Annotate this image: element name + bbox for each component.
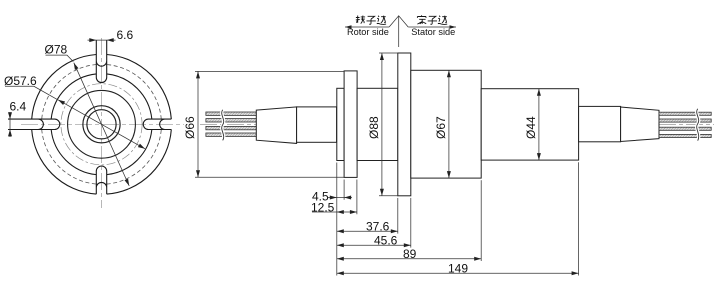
svg-text:Ø78: Ø78	[45, 43, 68, 57]
spacer cylinder	[357, 88, 398, 160]
svg-text:Ø67: Ø67	[434, 116, 448, 139]
inner circle	[68, 90, 136, 158]
svg-text:149: 149	[448, 262, 468, 276]
slot E	[143, 119, 171, 129]
svg-text:37.6: 37.6	[366, 220, 390, 234]
label 转子边	[356, 16, 365, 24]
bore circle	[87, 110, 116, 139]
dim 6.6	[88, 39, 116, 41]
dim 6.4	[9, 112, 11, 137]
stator lead wires	[659, 112, 711, 115]
rotor/stator divider	[389, 16, 408, 27]
outer circle Ø78 flange	[32, 54, 172, 194]
dim 12.5	[312, 211, 357, 213]
hidden circle dashed	[42, 65, 162, 185]
end cylinder Ø44	[481, 89, 578, 160]
rotor wire break mark	[222, 110, 224, 141]
label 定子边	[417, 15, 426, 24]
front view centerline vertical	[101, 38, 103, 208]
dim 45.6	[337, 244, 411, 246]
dim 37.6	[337, 230, 398, 232]
svg-text:12.5: 12.5	[311, 200, 335, 214]
dim 4.5	[328, 197, 352, 199]
rotor boot taper	[256, 107, 296, 143]
svg-text:Stator side: Stator side	[411, 27, 455, 37]
pitch circle dash-dot	[61, 84, 142, 165]
svg-text:Ø57.6: Ø57.6	[4, 74, 37, 88]
stator side arrow line	[408, 26, 456, 28]
stator boot taper	[621, 107, 659, 142]
side view centerline	[200, 123, 714, 125]
dim Ø88	[379, 52, 398, 54]
extension lines bottom dims	[336, 163, 338, 276]
dim Ø78 leader line	[74, 63, 129, 186]
stator boot cylinder	[579, 106, 621, 141]
dim Ø66	[195, 70, 344, 72]
dim Ø67	[448, 70, 450, 178]
dim Ø44	[538, 89, 540, 160]
slot N	[96, 40, 106, 83]
rotor shaft	[297, 107, 337, 142]
dim Ø57.6 label	[5, 86, 58, 100]
dim Ø57.6 leader line	[58, 100, 145, 149]
svg-text:6.6: 6.6	[117, 28, 134, 42]
hub boss	[337, 88, 344, 160]
circle Ø57.6	[51, 74, 152, 175]
rotor flange Ø66	[344, 71, 357, 177]
hub ring outer	[83, 106, 120, 143]
front view centerline horizontal	[21, 123, 184, 125]
dim 149	[337, 272, 579, 274]
slot S	[96, 166, 106, 194]
stator wire break mark	[697, 109, 699, 141]
svg-text:Ø88: Ø88	[367, 116, 381, 139]
svg-text:89: 89	[403, 247, 417, 261]
svg-text:Ø44: Ø44	[524, 116, 538, 139]
slot W	[8, 119, 60, 129]
dim Ø78 label	[46, 55, 74, 62]
svg-text:45.6: 45.6	[374, 234, 398, 248]
svg-text:Rotor side: Rotor side	[347, 27, 389, 37]
dim 89	[337, 258, 481, 260]
stator flange Ø88	[398, 53, 411, 196]
rotor side arrow line	[345, 26, 389, 28]
svg-text:Ø66: Ø66	[183, 116, 197, 139]
svg-text:6.4: 6.4	[10, 100, 27, 114]
body Ø67	[411, 70, 481, 178]
rotor lead wires	[206, 112, 256, 115]
